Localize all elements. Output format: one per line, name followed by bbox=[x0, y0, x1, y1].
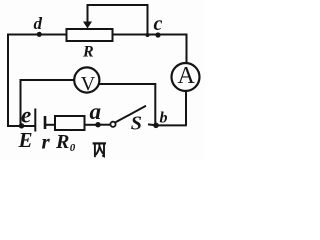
wire: right vertical down to ammeter bbox=[186, 34, 188, 64]
svg-text:a: a bbox=[90, 99, 102, 124]
svg-text:E: E bbox=[18, 128, 33, 152]
wire: top-left horizontal from left corner to rheostat bbox=[8, 34, 67, 36]
svg-text:S: S bbox=[131, 113, 142, 135]
wire: left vertical main bbox=[7, 34, 9, 127]
wiper arrow of rheostat bbox=[87, 5, 89, 22]
node d bbox=[37, 32, 42, 37]
wire: voltmeter left horizontal to left corner bbox=[21, 79, 75, 81]
svg-text:d: d bbox=[34, 14, 43, 33]
wire: battery to resistor R0 bbox=[45, 124, 55, 126]
node b bbox=[153, 123, 159, 129]
svg-text:0: 0 bbox=[70, 142, 76, 154]
wire: vertical down from voltmeter wire to node e bbox=[20, 79, 22, 126]
svg-text:e: e bbox=[21, 103, 31, 128]
svg-text:V: V bbox=[81, 73, 96, 95]
battery E short plate bbox=[44, 116, 47, 129]
switch fixed contact stub bbox=[148, 123, 156, 126]
wire: wiper loop top horizontal bbox=[87, 4, 148, 6]
caption 丙 (drawn strokes) bbox=[93, 143, 106, 157]
wire: node a to switch pivot bbox=[98, 124, 110, 126]
node junction of wiper branch bbox=[146, 33, 150, 37]
node c bbox=[155, 32, 160, 37]
resistor R0 bbox=[55, 116, 85, 130]
wire: horizontal from voltmeter to right branch bbox=[99, 83, 157, 85]
svg-text:R: R bbox=[55, 131, 69, 153]
voltmeter V bbox=[74, 67, 99, 92]
ammeter A bbox=[172, 63, 200, 91]
node a bbox=[95, 122, 100, 127]
svg-text:r: r bbox=[42, 130, 51, 154]
svg-text:R: R bbox=[82, 44, 94, 61]
wire: bottom-left horizontal to battery bbox=[7, 125, 35, 127]
resistor R (rheostat track) bbox=[67, 29, 113, 41]
svg-text:c: c bbox=[154, 13, 163, 35]
svg-text:A: A bbox=[178, 63, 196, 89]
wire: top horizontal from rheostat to right corner bbox=[113, 34, 187, 36]
node e bbox=[19, 123, 24, 128]
switch S blade bbox=[116, 106, 147, 123]
switch S pivot bbox=[110, 122, 115, 127]
wire: R0 to node a bbox=[85, 124, 99, 126]
wire: vertical from node b up to voltmeter branch bbox=[154, 85, 156, 126]
wire: wiper loop right vertical down to node c junction bbox=[147, 4, 149, 35]
svg-text:b: b bbox=[160, 110, 168, 127]
battery E long plate bbox=[34, 109, 36, 132]
wire: ammeter bottom down to bottom-right corner then left to node b bbox=[156, 91, 187, 125]
